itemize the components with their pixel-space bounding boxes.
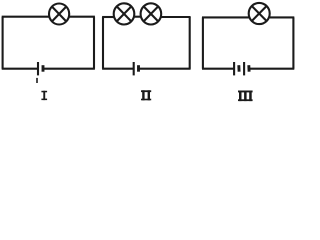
wire left side III — [202, 17, 204, 68]
wire right side II — [189, 17, 191, 69]
circuit I loop wires — [2, 17, 95, 69]
short thick plate — [237, 65, 240, 72]
lamp L4 (circuit III) — [249, 3, 270, 24]
label III — [238, 91, 253, 102]
wire left side I — [2, 17, 4, 69]
wire top-middle II — [134, 16, 141, 18]
wire top-left II — [102, 16, 114, 18]
label II — [141, 90, 151, 100]
wire bottom-left III — [202, 68, 234, 70]
long plate — [133, 62, 135, 75]
wire top-right II — [161, 16, 190, 18]
lamp L1 (circuit I) — [49, 4, 69, 25]
circuit III loop wires — [202, 17, 294, 68]
long plate — [233, 62, 235, 75]
battery cell B1 (circuit I) — [38, 62, 43, 75]
wire right side III — [292, 17, 294, 68]
short thick plate — [42, 65, 45, 72]
battery cell B2 (circuit II) — [134, 62, 139, 75]
wire right side I — [93, 17, 95, 69]
battery cell B3b (circuit III right cell) — [244, 62, 249, 75]
wire bottom-left I — [2, 68, 38, 70]
wire left side II — [102, 17, 104, 69]
wire bottom-left II — [102, 68, 134, 70]
long plate — [37, 62, 39, 75]
stray mark below battery I — [36, 78, 38, 83]
wire top-left I — [2, 16, 50, 18]
wire bottom-right III — [249, 68, 294, 70]
lamp L2 (circuit II left) — [114, 3, 135, 24]
label I — [41, 91, 47, 100]
long plate — [243, 62, 245, 75]
short thick plate — [137, 65, 140, 72]
wire top-right I — [69, 16, 95, 18]
wire top-right III — [270, 16, 295, 18]
wire top-left III — [202, 16, 249, 18]
wire bottom-right II — [139, 68, 191, 70]
short thick plate — [247, 65, 250, 72]
circuit II loop wires — [102, 17, 191, 69]
lamp L3 (circuit II right) — [141, 3, 162, 24]
battery cell B3a (circuit III left cell) — [234, 62, 239, 75]
wire bottom-right I — [43, 68, 95, 70]
